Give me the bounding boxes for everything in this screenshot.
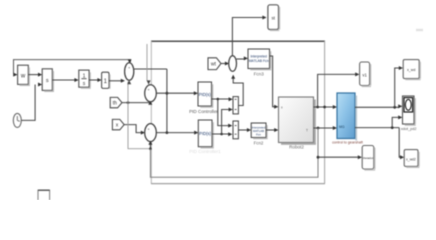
- sum A: [125, 63, 134, 81]
- display block x_wd2 bottom right: [404, 150, 419, 168]
- svg-text:w: w: [20, 74, 26, 80]
- svg-text:PID Controller: PID Controller: [189, 109, 218, 114]
- svg-text:MG: MG: [339, 125, 345, 129]
- wire P1 to sum B bottom: [122, 101, 152, 105]
- wire mux1 out loop up to sum E bottom: [231, 75, 243, 106]
- wire feedback up into sum D bottom: [148, 141, 152, 150]
- wire sum E top to st1 display: [232, 16, 266, 57]
- wire sum E to Fcn3: [236, 56, 248, 60]
- wire P2 to sum D: [124, 125, 145, 135]
- wire clock to L2: [21, 83, 42, 121]
- block st1: [268, 5, 280, 31]
- PID controller 1: [189, 82, 218, 114]
- svg-text:PID(s): PID(s): [199, 92, 211, 97]
- display block x_wd top right: [403, 60, 421, 81]
- PID controller 2: [189, 120, 221, 154]
- wire robot out1 to blue converter in1: [314, 105, 338, 109]
- mux 1: [233, 97, 238, 114]
- wire Fcn3 to robot input1: [270, 56, 279, 109]
- sum E: [229, 56, 237, 72]
- svg-text:Robot2: Robot2: [289, 145, 304, 150]
- wire L4 to sum A: [109, 79, 125, 83]
- block L2: [42, 69, 54, 92]
- svg-text:x_wd: x_wd: [407, 68, 415, 72]
- sum B: [145, 85, 157, 102]
- svg-text:v1: v1: [362, 73, 367, 78]
- svg-text:thetadot: thetadot: [363, 156, 373, 160]
- svg-text:PID(s): PID(s): [199, 131, 211, 136]
- wire into sum B top: [147, 44, 151, 85]
- input port P1: [110, 97, 122, 107]
- wire sum D to PID2: [156, 131, 198, 135]
- wire wt to sum E: [221, 62, 229, 66]
- subsystem boundary rectangle: [151, 41, 325, 184]
- svg-text:PID Controller1: PID Controller1: [189, 149, 221, 154]
- wire branch to thetadot display: [318, 155, 362, 159]
- display block v1: [360, 62, 372, 87]
- sum D: [145, 124, 157, 142]
- wire L2 to L3: [52, 78, 78, 82]
- svg-text:wt: wt: [211, 62, 217, 68]
- svg-text:T: T: [306, 129, 308, 133]
- wire L3 to L4: [89, 78, 102, 82]
- svg-text:control to gearshaft: control to gearshaft: [332, 141, 363, 145]
- input port P2: [112, 119, 124, 129]
- wire branch up to display x_wd: [395, 66, 403, 107]
- wire blue out1 to XY graph in1: [355, 104, 402, 108]
- svg-text:Fcn2: Fcn2: [254, 140, 264, 145]
- block L1 (source): [18, 65, 30, 86]
- svg-text:Fcn3: Fcn3: [254, 72, 265, 77]
- block Fcn2 Interpreted MATLAB Fcn: [251, 123, 268, 145]
- svg-text:xdot_pd2: xdot_pd2: [401, 127, 417, 131]
- blue converter block: [332, 93, 363, 145]
- wire L1 to L2: [28, 73, 42, 77]
- block L3 integrator 1/s: [79, 70, 91, 89]
- wire sum B to PID1: [156, 91, 198, 95]
- partial block bottom left: [38, 190, 50, 202]
- wire sum A output to junction column: [134, 69, 169, 134]
- clock block: [13, 113, 21, 127]
- wire Fcn2 to robot input2: [266, 128, 278, 132]
- svg-text:x_wd2: x_wd2: [406, 157, 416, 161]
- svg-text:Fcn: Fcn: [256, 132, 261, 136]
- svg-text:MATLAB Fcn: MATLAB Fcn: [249, 59, 269, 63]
- wire branch up to display v1: [318, 72, 360, 107]
- svg-text:s: s: [46, 78, 49, 84]
- svg-text:1: 1: [83, 74, 86, 80]
- wire blue out2 to XY graph in2 and x_wd2: [355, 115, 404, 159]
- block L4: [102, 72, 111, 89]
- block Fcn3 Interpreted MATLAB Fcn: [248, 49, 271, 77]
- wire PID1 out to mux1 in1 with branch down: [212, 97, 233, 127]
- faint annotation smudge top right: [416, 29, 423, 31]
- feedback gray path from P1 junction down to sum D bottom: [127, 80, 150, 149]
- display block thetadot: [362, 146, 375, 171]
- wire PID2 out to mux2 in2 with branch up: [212, 108, 233, 137]
- wire robot out2 to blue converter in2: [314, 126, 338, 130]
- robot subsystem block: [279, 97, 316, 150]
- XY graph scope block: [401, 96, 417, 131]
- svg-text:th: th: [113, 101, 117, 107]
- svg-text:Interpreted: Interpreted: [250, 55, 267, 59]
- wire: reference feedline top-left: [13, 59, 131, 76]
- wire mux2 out to Fcn2: [238, 128, 251, 132]
- mux 2: [233, 121, 238, 139]
- feedback wire from robot out down and left to sum D: [150, 128, 319, 177]
- source tag wt: [208, 58, 221, 70]
